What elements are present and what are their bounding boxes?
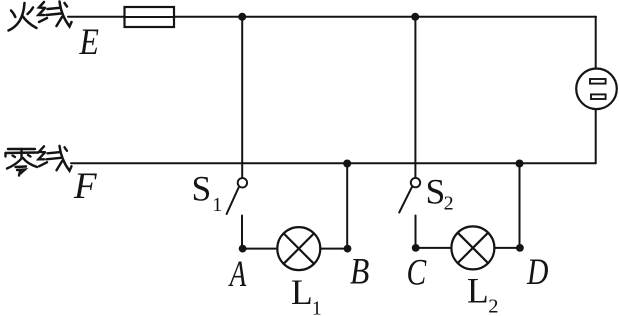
wire live junction down to switch S1 xyxy=(241,17,243,178)
node B dot xyxy=(344,245,352,253)
fuse xyxy=(125,7,175,27)
lamp L2 xyxy=(451,226,494,269)
junction dot live/S2 branch xyxy=(411,13,419,21)
wire neutral junction down to node D xyxy=(519,163,521,248)
switch S2 (open) xyxy=(399,178,420,213)
label A xyxy=(228,254,246,295)
wire node C to lamp L2 xyxy=(416,247,452,249)
junction dot neutral/D branch xyxy=(516,160,524,168)
label C xyxy=(407,252,427,293)
svg-text:S: S xyxy=(192,169,212,209)
wire lamp L2 to node D xyxy=(494,247,520,249)
svg-text:A: A xyxy=(228,254,246,295)
wire neutral junction down to node B xyxy=(346,163,348,248)
junction dot live/S1 branch xyxy=(238,13,246,21)
线 xyxy=(39,146,72,171)
svg-text:1: 1 xyxy=(312,297,322,316)
svg-text:2: 2 xyxy=(488,296,498,316)
wire live junction down to switch S2 xyxy=(414,17,416,178)
svg-text:E: E xyxy=(79,22,99,63)
label E xyxy=(79,22,99,63)
wire node A to lamp L1 xyxy=(243,248,278,250)
svg-text:S: S xyxy=(426,171,446,211)
label 火线 (live wire name) xyxy=(9,2,72,31)
svg-text:C: C xyxy=(407,252,427,293)
wire lamp L1 to node B xyxy=(320,248,347,250)
svg-text:B: B xyxy=(350,251,369,292)
neutral wire (lower horizontal) xyxy=(71,162,596,164)
svg-text:2: 2 xyxy=(444,193,454,215)
svg-text:D: D xyxy=(526,252,548,293)
svg-text:L: L xyxy=(467,271,489,311)
wire socket to neutral (right vertical lower) xyxy=(595,110,597,164)
wire live to socket (right vertical upper) xyxy=(595,17,597,68)
svg-text:1: 1 xyxy=(212,194,222,216)
label B xyxy=(350,251,369,292)
node A dot xyxy=(239,245,247,253)
label D xyxy=(526,252,548,293)
lamp L1 xyxy=(277,227,320,270)
火 xyxy=(9,3,25,31)
wire switch S2 to node C xyxy=(415,216,417,248)
svg-text:F: F xyxy=(73,166,97,207)
线 xyxy=(39,2,72,27)
node C dot xyxy=(412,244,420,252)
零 xyxy=(6,149,39,176)
wire switch S1 to node A xyxy=(241,216,243,249)
live wire (top horizontal) xyxy=(68,16,596,18)
label F xyxy=(73,166,97,207)
svg-text:L: L xyxy=(291,272,313,312)
socket (wall outlet) xyxy=(576,69,617,110)
switch S1 (open) xyxy=(227,178,247,214)
node D dot xyxy=(516,244,524,252)
junction dot neutral/B branch xyxy=(343,160,351,168)
label 零线 (neutral wire name) xyxy=(6,146,72,176)
